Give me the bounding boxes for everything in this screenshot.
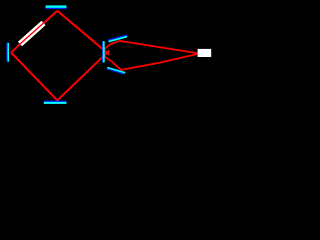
mirror M4 (output coupler, vertical bar at right vertex) [102, 41, 105, 62]
wire: upper output beam via fold mirror to detector [104, 41, 199, 54]
wire: cavity beam, top vertex to right vertex [57, 11, 109, 55]
gain crystal (white box on upper-left cavity arm, drawn over beam) [18, 21, 46, 47]
wire: lower output beam via fold mirror to detector [105, 54, 199, 70]
wire: cavity beam, bottom vertex to right vertex [57, 51, 109, 101]
wire: cavity beam, left vertex to bottom vertex [11, 53, 57, 101]
mirror M1 (top, horizontal bar above top vertex) [46, 5, 67, 9]
mirror M2 (left, vertical bar left of left vertex) [6, 43, 9, 62]
mirror M6 (lower fold mirror, diagonal bar at lower beam bend) [107, 67, 126, 75]
wire: cavity beam, left vertex to top vertex (through crystal) [11, 11, 57, 53]
detector (white box at right where beams converge) [198, 49, 212, 57]
wire: intracavity beam stripe through crystal [20, 22, 44, 44]
mirror M3 (bottom, horizontal bar below bottom vertex) [44, 101, 67, 104]
mirror M5 (upper fold mirror, diagonal bar at upper beam bend) [108, 34, 127, 42]
